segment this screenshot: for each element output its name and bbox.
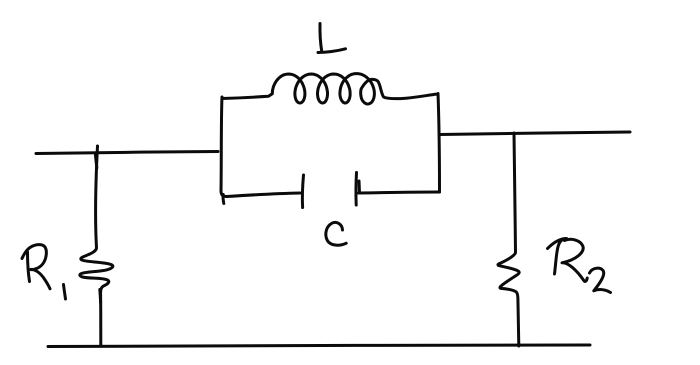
capacitor C left plate: [302, 175, 303, 208]
wire: right output horizontal: [440, 132, 630, 135]
capacitor C left lead: [227, 193, 300, 197]
junction tick: R1 top crossing: [96, 155, 97, 168]
wire: box right edge: [438, 94, 440, 193]
capacitor C right plate: [354, 173, 358, 206]
box bottom-left overshoot tick: [222, 195, 226, 204]
inductor L (top coil): [222, 74, 438, 104]
resistor R1 lower retrace: [98, 290, 102, 303]
label L: [318, 24, 346, 53]
wire: bottom rail: [48, 345, 590, 347]
label C: [326, 222, 346, 245]
resistor R1: [80, 146, 113, 346]
capacitor C right plate tick: [358, 181, 361, 191]
label R1: [22, 245, 66, 299]
wire: left input horizontal: [36, 152, 218, 154]
resistor R2: [498, 133, 519, 346]
wire: box left edge: [221, 97, 227, 197]
capacitor C right lead: [359, 192, 440, 193]
label R2: [548, 239, 611, 293]
